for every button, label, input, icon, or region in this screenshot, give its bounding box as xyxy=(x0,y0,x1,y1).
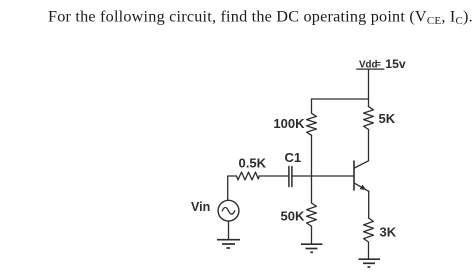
svg-text:5K: 5K xyxy=(379,111,396,126)
svg-text:=: = xyxy=(376,59,381,69)
Vdd label xyxy=(356,57,406,71)
wire left rail middle xyxy=(311,135,313,203)
wire corner to resistor xyxy=(228,176,237,200)
svg-text:Vin: Vin xyxy=(191,200,210,214)
wire right rail top xyxy=(368,99,370,107)
svg-text:50K: 50K xyxy=(281,209,305,224)
resistor 0.5K xyxy=(237,172,260,180)
svg-text:C1: C1 xyxy=(285,150,302,165)
wire collector diagonal xyxy=(354,161,368,168)
capacitor C1 left plate xyxy=(288,167,290,187)
wire emitter to ground xyxy=(368,242,370,259)
resistor 100K xyxy=(307,113,317,135)
wire emitter vertical xyxy=(368,191,370,218)
transistor Q1 base bar xyxy=(353,161,355,190)
resistor 50K xyxy=(307,203,317,226)
svg-text:3K: 3K xyxy=(380,225,397,240)
wire emitter diagonal xyxy=(355,183,369,191)
ground Vin xyxy=(217,240,240,248)
wire Vdd drop xyxy=(368,70,370,99)
source Vin circle xyxy=(218,200,239,221)
svg-text:0.5K: 0.5K xyxy=(239,156,267,171)
ground emitter xyxy=(359,259,381,267)
source Vin sine xyxy=(222,208,235,215)
svg-text:15v: 15v xyxy=(385,57,406,71)
ground 50K xyxy=(301,244,323,252)
wire resistor to capacitor xyxy=(259,175,288,177)
capacitor C1 right plate xyxy=(291,167,293,187)
wire top horizontal xyxy=(312,98,369,100)
resistor 3K xyxy=(364,218,374,242)
wire collector vertical xyxy=(368,130,370,161)
svg-text:For the following circuit, fin: For the following circuit, find the DC o… xyxy=(48,7,473,27)
wire base xyxy=(293,175,354,177)
transistor Q1 emitter arrow xyxy=(360,185,367,190)
svg-text:100K: 100K xyxy=(273,116,305,131)
wire left rail top xyxy=(311,99,313,113)
wire left rail bottom xyxy=(311,226,313,243)
resistor 5K xyxy=(364,107,374,130)
wire Vin to ground xyxy=(228,221,230,239)
